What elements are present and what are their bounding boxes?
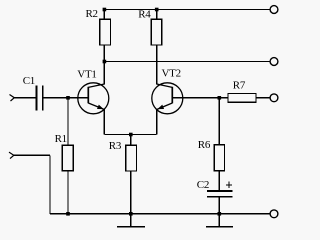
svg-text:R2: R2 <box>86 8 98 20</box>
svg-text:R7: R7 <box>233 80 246 92</box>
svg-text:VT2: VT2 <box>162 68 181 80</box>
svg-text:R4: R4 <box>138 9 151 21</box>
svg-text:VT1: VT1 <box>77 68 96 80</box>
svg-text:C1: C1 <box>23 75 35 87</box>
svg-text:R1: R1 <box>55 133 67 145</box>
svg-text:R3: R3 <box>109 140 122 152</box>
svg-text:R6: R6 <box>198 139 211 151</box>
svg-text:C2: C2 <box>197 179 209 191</box>
